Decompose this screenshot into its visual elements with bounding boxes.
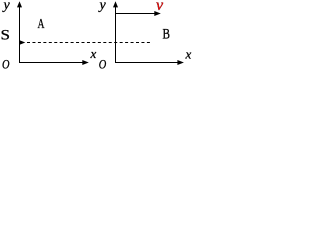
dashed line from S axis to B bbox=[27, 42, 150, 44]
frame S y-axis arrowhead bbox=[17, 1, 22, 7]
frame S y-axis bbox=[19, 7, 21, 64]
frame S x-axis arrowhead bbox=[82, 60, 89, 65]
svg-text:O: O bbox=[99, 56, 107, 71]
svg-text:y: y bbox=[2, 0, 11, 13]
svg-text:O: O bbox=[2, 56, 10, 71]
dashed-line start arrowhead bbox=[20, 40, 26, 45]
svg-text:v: v bbox=[156, 0, 164, 14]
svg-text:x: x bbox=[90, 46, 97, 61]
velocity arrowhead bbox=[154, 11, 161, 16]
svg-text:A: A bbox=[38, 17, 46, 32]
svg-text:y: y bbox=[98, 0, 107, 13]
svg-text:x: x bbox=[185, 46, 192, 61]
frame S x-axis bbox=[20, 62, 84, 64]
frame S' x-axis bbox=[116, 62, 179, 64]
frame S' y-axis arrowhead bbox=[113, 1, 118, 7]
frame S' x-axis arrowhead bbox=[177, 60, 184, 65]
svg-text:S: S bbox=[1, 28, 11, 44]
svg-text:B: B bbox=[163, 26, 171, 42]
frame S' y-axis bbox=[115, 7, 117, 64]
velocity arrow shaft bbox=[116, 13, 156, 15]
